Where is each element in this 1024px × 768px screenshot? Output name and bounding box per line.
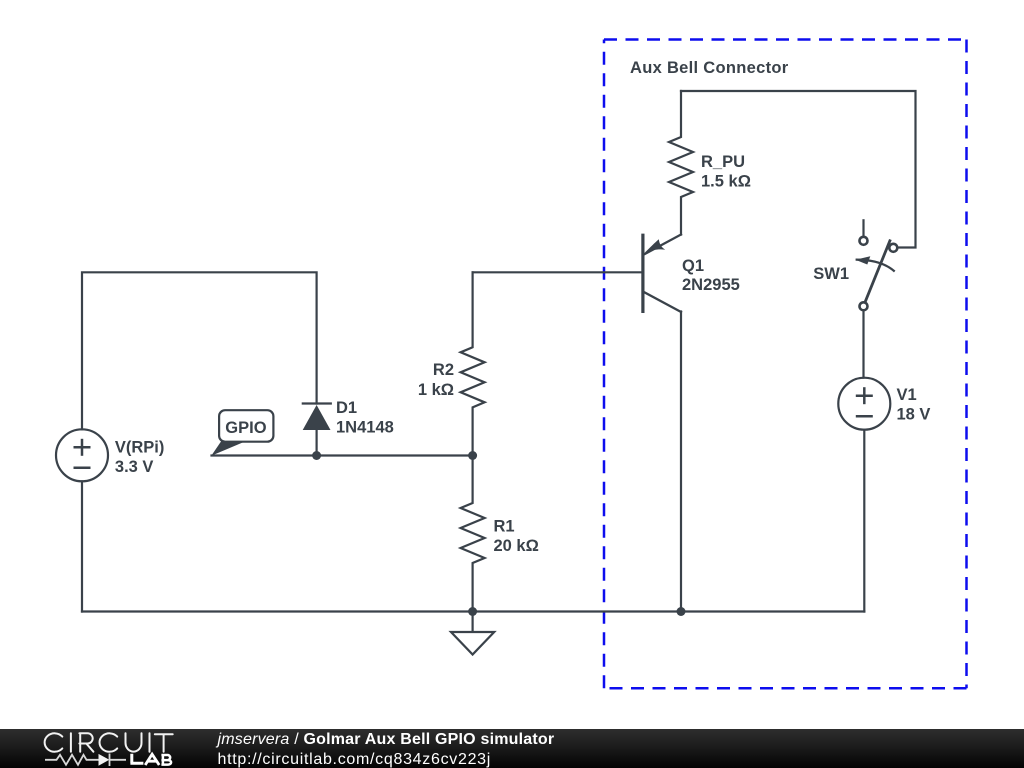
wire V1 bottom [863,430,865,612]
svg-text:18 V: 18 V [897,406,931,424]
wire D1 anode to GPIO node [316,430,318,456]
footer logo CIRCUIT [45,733,173,751]
svg-text:SW1: SW1 [813,265,849,283]
transistor Q1 emitter [644,235,681,255]
switch SW1 [856,237,898,310]
svg-text:V(RPi): V(RPi) [115,439,164,457]
junction node at D1 anode [312,451,321,460]
wire left vertical below V(RPi) [81,481,83,611]
footer bar [0,729,1024,768]
transistor Q1 base bar [641,234,644,313]
svg-text:Aux Bell Connector: Aux Bell Connector [630,59,789,77]
svg-text:Q1: Q1 [682,257,704,275]
svg-text:http://circuitlab.com/cq834z6c: http://circuitlab.com/cq834z6cv223j [218,751,492,768]
junction node at ground rail [468,607,477,616]
wire Q1 collector to bottom rail [680,312,682,612]
transistor Q1 emitter arrow [645,239,666,253]
ground [472,612,474,633]
svg-text:V1: V1 [897,386,917,404]
resistor R2 [461,272,485,455]
footer logo resistor-diode glyph [45,754,126,767]
svg-text:2N2955: 2N2955 [682,276,740,294]
wire SW1 common to V1 [862,311,864,378]
svg-text:R2: R2 [433,361,454,379]
svg-text:GPIO: GPIO [225,419,266,437]
voltage source V(RPi) [56,429,108,481]
svg-text:D1: D1 [336,399,357,417]
transistor Q1 collector [644,292,681,312]
resistor R1 [461,456,485,612]
flag GPIO [211,410,273,456]
footer logo LAB [130,754,171,765]
svg-text:20 kΩ: 20 kΩ [494,537,539,555]
svg-text:jmservera / Golmar Aux Bell GP: jmservera / Golmar Aux Bell GPIO simulat… [216,731,555,748]
svg-text:R1: R1 [494,518,515,536]
voltage source V1 [838,378,890,430]
switch SW1 arc arrow [855,256,870,264]
svg-text:1N4148: 1N4148 [336,419,394,437]
diode D1 [302,404,332,431]
svg-text:3.3 V: 3.3 V [115,458,154,476]
junction node at R2/R1 [468,451,477,460]
svg-text:R_PU: R_PU [701,153,745,171]
junction node at Q1 collector rail [677,607,686,616]
annotation box Aux Bell Connector [604,40,967,689]
wire GPIO node horizontal [212,454,473,456]
svg-text:1 kΩ: 1 kΩ [418,381,454,399]
wire base of Q1 to R2 top [473,271,643,273]
resistor R_PU [669,91,693,235]
svg-text:1.5 kΩ: 1.5 kΩ [701,173,751,191]
wire bottom rail [82,610,864,612]
wire SW1 open throw stub [862,220,864,235]
wire V(RPi) top to D1 cathode [82,272,317,429]
wire top rail in connector [681,91,916,248]
